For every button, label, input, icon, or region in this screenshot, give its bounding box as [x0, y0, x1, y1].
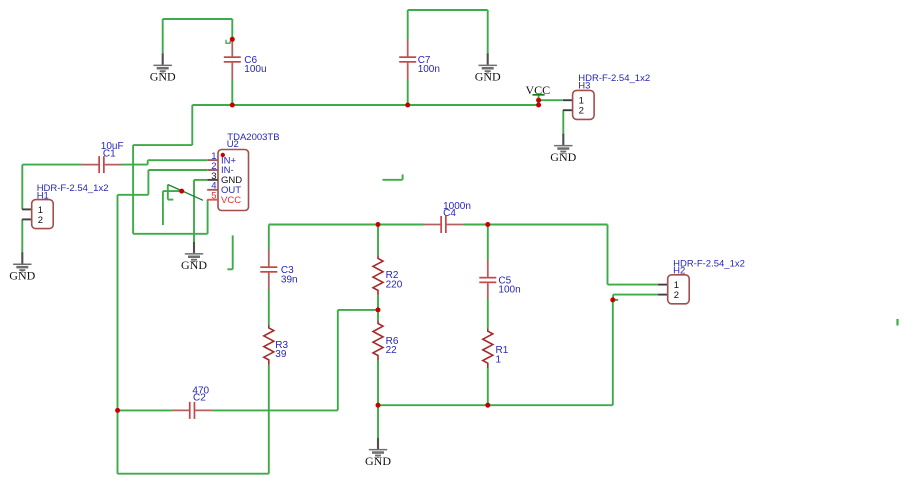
svg-text:100u: 100u	[244, 64, 266, 75]
svg-text:U2: U2	[227, 139, 239, 150]
svg-text:H1: H1	[37, 191, 49, 202]
svg-text:22: 22	[386, 345, 398, 356]
svg-text:VCC: VCC	[221, 195, 241, 206]
svg-text:2: 2	[38, 215, 43, 226]
svg-text:2: 2	[579, 106, 584, 117]
svg-text:GND: GND	[9, 268, 35, 282]
svg-text:100n: 100n	[498, 285, 520, 296]
svg-text:H3: H3	[578, 80, 590, 91]
svg-text:C1: C1	[103, 148, 116, 159]
svg-text:1: 1	[496, 355, 502, 366]
svg-text:GND: GND	[365, 454, 391, 468]
svg-text:220: 220	[386, 280, 403, 291]
svg-text:5: 5	[211, 191, 216, 202]
svg-text:GND: GND	[550, 150, 576, 164]
svg-text:C4: C4	[443, 208, 456, 219]
svg-text:39: 39	[275, 349, 287, 360]
svg-text:2: 2	[674, 290, 679, 301]
svg-text:H2: H2	[673, 266, 685, 277]
svg-text:39n: 39n	[281, 274, 298, 285]
svg-text:100n: 100n	[418, 64, 440, 75]
svg-text:GND: GND	[181, 258, 207, 272]
svg-text:GND: GND	[150, 70, 176, 84]
svg-text:GND: GND	[475, 70, 501, 84]
svg-text:C2: C2	[193, 393, 206, 404]
